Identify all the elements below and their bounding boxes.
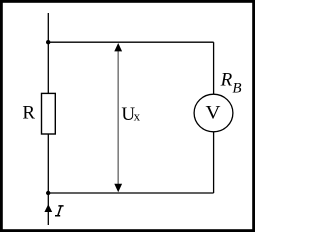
border frame — [1, 1, 253, 230]
wire: left vertical between junction and resistor — [47, 42, 49, 93]
current arrow I head — [44, 204, 52, 212]
wire: right vertical lower — [213, 132, 215, 193]
svg-text:B: B — [232, 80, 241, 96]
voltage arrow Ux bottom head — [114, 184, 122, 192]
wire: left vertical bottom stub — [47, 193, 49, 225]
wire: top horizontal — [48, 41, 213, 43]
label RB — [220, 70, 242, 97]
voltmeter V circle — [194, 94, 233, 132]
node: bottom-left junction — [46, 191, 50, 195]
voltage arrow Ux stem — [117, 49, 119, 186]
wire: right vertical upper — [213, 42, 215, 94]
resistor R body — [42, 93, 56, 134]
voltage arrow Ux top head — [114, 43, 122, 51]
svg-text:R: R — [22, 102, 35, 123]
wire: left vertical below resistor — [47, 134, 49, 193]
wire: left vertical top stub — [47, 13, 49, 42]
wire: bottom horizontal — [48, 192, 213, 194]
label I — [55, 206, 64, 216]
svg-text:R: R — [220, 70, 233, 91]
label Ux — [121, 104, 140, 125]
svg-text:V: V — [206, 102, 221, 123]
label V inside voltmeter — [206, 102, 221, 123]
label R — [22, 102, 35, 123]
node: top-left junction — [46, 40, 50, 44]
svg-text:x: x — [134, 109, 141, 124]
